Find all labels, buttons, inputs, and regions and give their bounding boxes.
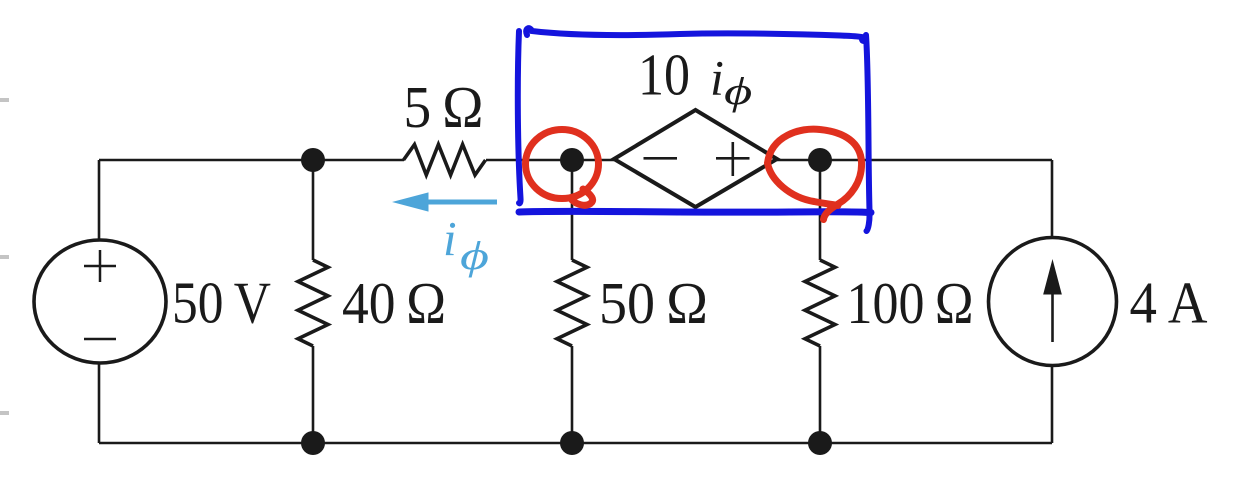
annotation red circle left: [526, 130, 599, 206]
wire left vertical lower (50V source to bottom wire): [98, 363, 101, 443]
svg-text:50 Ω: 50 Ω: [599, 270, 708, 336]
node top at 100-ohm branch: [808, 148, 832, 172]
svg-text:4 A: 4 A: [1130, 270, 1208, 336]
wire 50-ohm branch stub bottom: [571, 346, 574, 443]
current arrow i_phi (light blue): [394, 193, 497, 211]
grey page tick marks: [0, 100, 9, 413]
node bottom at 100-ohm branch: [808, 431, 832, 455]
annotation blue box right edge: [866, 35, 870, 231]
svg-text:50 V: 50 V: [172, 270, 271, 336]
resistor R 50 ohm (vertical zigzag): [557, 260, 587, 346]
current source arrow: [1044, 261, 1061, 342]
node bottom at 40-ohm branch: [301, 431, 325, 455]
wire 40-ohm branch stub top: [312, 160, 315, 260]
node top at 40-ohm branch: [301, 148, 325, 172]
wire 50-ohm branch stub top: [571, 160, 574, 260]
annotation blue box corner knot: [859, 35, 868, 44]
wire right vertical lower (current source to bottom wire): [1051, 366, 1054, 444]
annotation red circle right: [768, 129, 862, 219]
annotation blue box top edge: [526, 28, 864, 37]
dependent source diamond 10 i_phi: [614, 110, 777, 207]
diamond minus sign: [644, 157, 678, 160]
svg-text:ϕ: ϕ: [724, 70, 752, 113]
svg-text:ϕ: ϕ: [460, 234, 489, 278]
node top at 50-ohm branch: [560, 148, 584, 172]
wire 100-ohm branch stub top: [819, 160, 822, 260]
voltage source 50V circle: [34, 240, 166, 363]
wire 100-ohm branch stub bottom: [819, 346, 822, 443]
wire left vertical upper (top wire down to 50V source): [98, 160, 101, 240]
svg-text:5 Ω: 5 Ω: [404, 74, 484, 140]
diamond plus sign: [716, 142, 750, 176]
resistor R 5 ohm (horizontal zigzag): [404, 145, 486, 176]
svg-text:i: i: [710, 50, 724, 106]
wire 40-ohm branch stub bottom: [312, 346, 315, 443]
annotation blue box left edge: [518, 31, 521, 203]
resistor R 100 ohm (vertical zigzag): [805, 260, 835, 346]
wire right vertical upper (top corner to current source): [1051, 160, 1054, 239]
svg-text:10: 10: [638, 42, 690, 108]
node bottom at 50-ohm branch: [560, 431, 584, 455]
svg-text:40 Ω: 40 Ω: [342, 270, 446, 336]
wire bottom horizontal: [99, 442, 1052, 445]
voltage source minus sign: [84, 338, 116, 341]
wire top-left horizontal (source top to 5-ohm): [99, 159, 404, 162]
wire top between 5-ohm and diamond: [486, 159, 614, 162]
annotation blue box bottom edge: [519, 211, 871, 212]
svg-text:100 Ω: 100 Ω: [847, 270, 974, 336]
wire top between diamond and right corner: [777, 159, 1052, 162]
voltage source plus sign: [84, 250, 116, 282]
current source 4A circle: [989, 238, 1117, 366]
resistor R 40 ohm (vertical zigzag): [298, 260, 328, 346]
svg-text:i: i: [443, 211, 457, 266]
